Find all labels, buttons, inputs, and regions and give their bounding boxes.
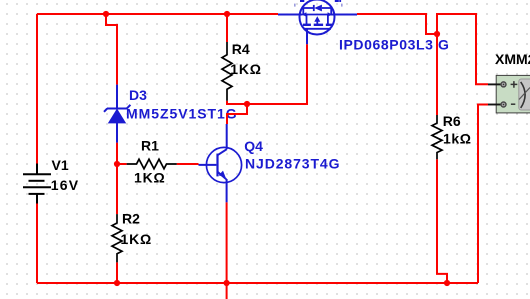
svg-text:XMM2: XMM2 <box>495 51 530 67</box>
svg-text:16V: 16V <box>51 177 80 193</box>
svg-text:D3: D3 <box>129 87 147 103</box>
svg-text:1kΩ: 1kΩ <box>443 130 472 146</box>
svg-text:R2: R2 <box>122 211 140 227</box>
svg-text:V1: V1 <box>52 157 69 173</box>
svg-text:1KΩ: 1KΩ <box>230 61 262 77</box>
svg-text:NJD2873T4G: NJD2873T4G <box>245 155 340 171</box>
svg-text:R6: R6 <box>443 113 461 129</box>
svg-text:1KΩ: 1KΩ <box>121 231 153 247</box>
svg-text:R4: R4 <box>232 41 250 57</box>
svg-text:1KΩ: 1KΩ <box>134 170 166 186</box>
svg-text:IPD068P03L3 G: IPD068P03L3 G <box>339 36 450 52</box>
svg-text:R1: R1 <box>141 138 159 154</box>
svg-text:MM5Z5V1ST1G: MM5Z5V1ST1G <box>126 105 238 121</box>
svg-text:Q4: Q4 <box>244 138 263 154</box>
